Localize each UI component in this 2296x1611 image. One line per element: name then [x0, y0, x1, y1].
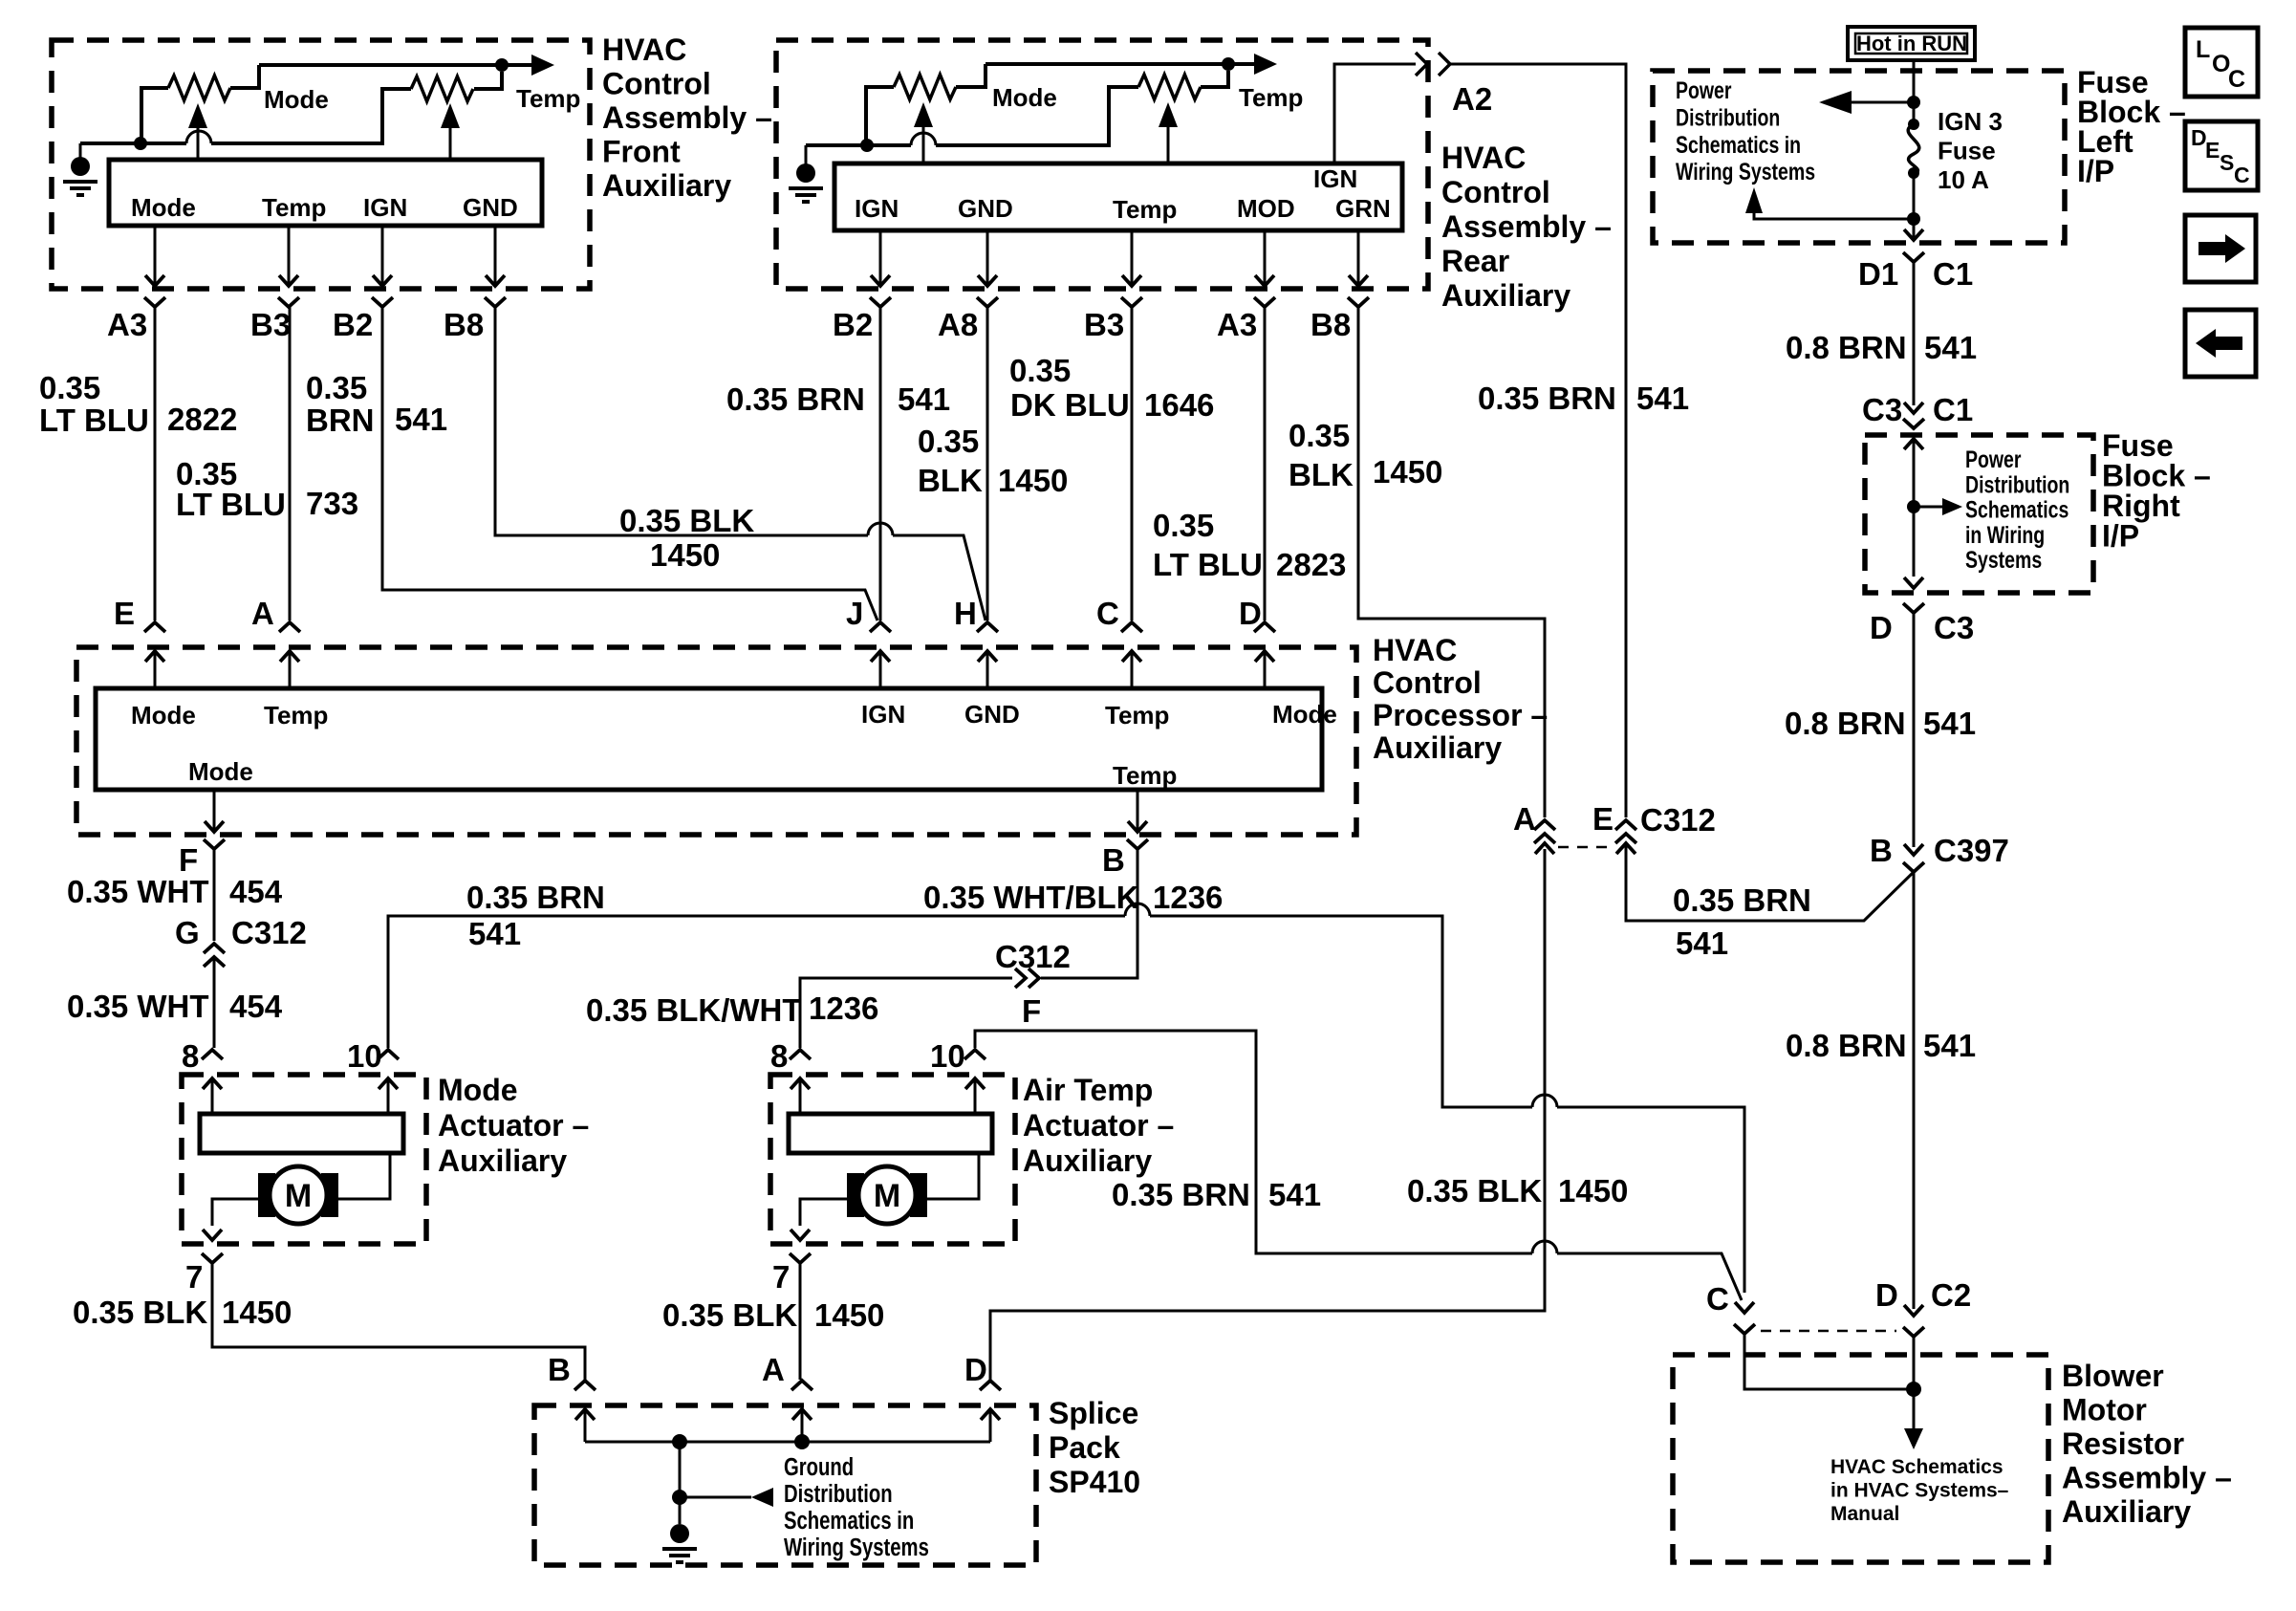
wire B3 -> C (0.35 DK BLU 1646) [1131, 307, 1134, 620]
svg-text:Auxiliary: Auxiliary [1373, 730, 1502, 765]
connector chevron pin x=400 (front) [372, 297, 393, 307]
svg-text:1450: 1450 [814, 1297, 884, 1333]
svg-text:0.35 BLK/WHT: 0.35 BLK/WHT [586, 992, 802, 1028]
svg-text:A: A [762, 1352, 785, 1387]
connector chevron pin x=162 (front) [144, 297, 165, 307]
svg-text:GND: GND [964, 700, 1020, 729]
wire A2 -> right rail (0.35 BRN 541) [1450, 64, 1626, 817]
wiper arrow Temp (front) [441, 103, 460, 128]
svg-text:M: M [285, 1178, 312, 1214]
arrow: power distribution reference (right) [1914, 506, 1942, 509]
svg-text:Control: Control [602, 67, 711, 101]
connector chevron pin x=921 (rear) [870, 297, 891, 307]
svg-text:Assembly –: Assembly – [1441, 209, 1612, 244]
ground (front assembly) [71, 157, 90, 176]
svg-text:Mode: Mode [264, 85, 329, 114]
svg-text:Resistor: Resistor [2062, 1426, 2184, 1461]
wire mode actuator pin 10 feed (0.35 BRN 541) [388, 916, 1125, 1048]
potentiometer Temp (rear) [1138, 75, 1201, 99]
ground (rear assembly) [796, 163, 815, 183]
svg-text:8: 8 [182, 1038, 199, 1074]
arrow: A2 exit through box edge [1416, 53, 1427, 76]
arrow: ground distribution reference [680, 1496, 751, 1499]
svg-text:733: 733 [306, 486, 358, 521]
svg-text:D: D [1875, 1277, 1898, 1313]
svg-text:0.35 BRN: 0.35 BRN [1112, 1177, 1250, 1212]
arrow: Temp output (rear) [1254, 54, 1277, 75]
svg-text:541: 541 [468, 916, 521, 951]
svg-text:H: H [954, 596, 977, 631]
node: top line junction (front) [495, 58, 509, 72]
svg-text:Schematics: Schematics [1965, 496, 2069, 523]
fuse block right entry arrow [1904, 439, 1923, 449]
pin stem x=1421 (rear) [1357, 230, 1360, 284]
node: rear bus junction [860, 139, 874, 152]
svg-text:0.35 BRN: 0.35 BRN [726, 381, 865, 417]
potentiometer Mode (rear) [866, 87, 894, 145]
Mode Actuator - Auxiliary (dashed box) [182, 1075, 426, 1244]
svg-text:C: C [1706, 1281, 1729, 1317]
svg-text:1450: 1450 [650, 537, 720, 573]
processor pin C entry [1121, 622, 1142, 632]
svg-text:D: D [1870, 610, 1893, 645]
HVAC Control Assembly - Front Auxiliary (dashed box) [52, 40, 590, 289]
connector rect (front assembly) [109, 160, 542, 226]
svg-text:10: 10 [347, 1038, 382, 1074]
connector chevron pin x=1323 (rear) [1254, 297, 1275, 307]
svg-text:Distribution: Distribution [1676, 104, 1780, 131]
Hot in RUN box [1848, 27, 1975, 60]
wire motor to rect (mode) [338, 1153, 390, 1199]
node: reference junction (right fuse block) [1907, 500, 1920, 513]
svg-text:GND: GND [463, 193, 518, 222]
wire C312 G -> mode actuator pin 8 (0.35 WHT 454) [213, 959, 216, 1048]
svg-text:Schematics in: Schematics in [1676, 131, 1801, 158]
pin stem x=518 (front) [494, 226, 497, 284]
svg-text:HVAC: HVAC [1373, 633, 1457, 667]
svg-text:541: 541 [1923, 1028, 1976, 1063]
splice bus [585, 1441, 990, 1444]
dashed connector body C312 [1558, 846, 1614, 849]
svg-text:0.35 BLK: 0.35 BLK [73, 1295, 207, 1330]
wire pin 7 -> splice A (0.35 BLK 1450) [799, 1263, 802, 1380]
svg-text:B: B [1870, 833, 1893, 868]
in-line connector C312 pin E [1615, 820, 1636, 830]
svg-text:Motor: Motor [2062, 1393, 2147, 1427]
pin stem x=162 (front) [154, 226, 157, 284]
svg-text:B: B [1102, 842, 1125, 878]
motor M (mode actuator) [258, 1173, 275, 1217]
arrow: HVAC schematics reference [1904, 1428, 1923, 1449]
pin stem x=1184 (rear) [1131, 230, 1134, 284]
connector chevron pin x=518 (front) [485, 297, 506, 307]
icon box LOC [2185, 28, 2258, 97]
processor pin E entry [144, 622, 165, 632]
node: fuse bottom junction [1907, 212, 1920, 226]
potentiometer Temp (front) [411, 76, 473, 101]
svg-text:8: 8 [770, 1038, 788, 1074]
svg-text:10 A: 10 A [1938, 165, 1989, 194]
svg-text:7: 7 [185, 1259, 203, 1295]
wire: front ground bus [80, 142, 135, 145]
icon box DESC [2185, 121, 2258, 190]
svg-text:I/P: I/P [2077, 154, 2114, 188]
svg-text:0.8 BRN: 0.8 BRN [1786, 1028, 1907, 1063]
svg-text:1236: 1236 [1153, 880, 1223, 915]
arrow: Temp output (front) [531, 54, 554, 76]
svg-text:IGN: IGN [363, 193, 407, 222]
svg-text:0.35: 0.35 [306, 370, 367, 405]
processor pin J entry [870, 622, 891, 632]
svg-text:Air Temp: Air Temp [1023, 1073, 1153, 1107]
processor pin F exit [213, 790, 216, 830]
wire fuse -> exit [1913, 173, 1916, 237]
wire: front top line to Temp arrow [259, 63, 531, 67]
Blower Motor Resistor Assembly - Auxiliary (dashed box) [1673, 1355, 2048, 1562]
svg-text:MOD: MOD [1237, 194, 1295, 223]
Fuse Block - Right I/P (dashed box) [1865, 435, 2093, 593]
svg-text:D: D [1239, 596, 1262, 631]
svg-text:Temp: Temp [1113, 761, 1177, 790]
svg-text:541: 541 [1636, 381, 1689, 416]
splice pack pin D entry [980, 1381, 1001, 1390]
svg-text:B: B [548, 1352, 571, 1387]
svg-text:Mode: Mode [1272, 700, 1337, 729]
svg-text:0.8 BRN: 0.8 BRN [1785, 706, 1906, 741]
svg-text:0.35 BLK: 0.35 BLK [662, 1297, 797, 1333]
svg-text:Temp: Temp [1113, 195, 1177, 224]
svg-text:C397: C397 [1934, 833, 2009, 868]
splice pack pin B entry [574, 1381, 596, 1390]
wire: rear ground bus [806, 143, 861, 147]
svg-text:C: C [2228, 66, 2245, 93]
wire C312 E -> B C397 (0.35 BRN 541) [1626, 845, 1914, 921]
svg-text:E: E [1592, 801, 1614, 837]
svg-text:541: 541 [1923, 706, 1976, 741]
svg-text:A: A [1513, 801, 1536, 837]
motor M (air temp actuator) [847, 1173, 864, 1217]
wire air temp pin 10 feed (0.35 BRN 541) [975, 1031, 1532, 1253]
svg-text:2823: 2823 [1276, 547, 1346, 582]
svg-text:Systems: Systems [1965, 547, 2042, 574]
Splice Pack SP410 (dashed box) [534, 1405, 1036, 1565]
svg-text:Mode: Mode [992, 83, 1057, 112]
svg-text:Assembly –: Assembly – [2062, 1461, 2232, 1495]
HVAC Control Processor - Auxiliary (dashed box) [76, 647, 1356, 835]
svg-text:Auxiliary: Auxiliary [438, 1143, 567, 1178]
processor pin B exit [1137, 790, 1139, 830]
svg-text:0.35: 0.35 [1153, 508, 1214, 543]
svg-text:1450: 1450 [1373, 454, 1442, 490]
mode actuator pin 8 entry [202, 1050, 223, 1059]
svg-text:A: A [251, 596, 274, 631]
svg-text:Assembly –: Assembly – [602, 100, 772, 135]
wire B2 -> J (0.35 BRN 541) [879, 307, 882, 620]
svg-text:IGN: IGN [861, 700, 905, 729]
svg-text:541: 541 [1268, 1177, 1321, 1212]
svg-text:0.35 BRN: 0.35 BRN [1478, 381, 1616, 416]
pin stem x=1033 (rear) [986, 230, 989, 284]
wire motor to rect (air temp) [927, 1153, 979, 1199]
svg-text:LT BLU: LT BLU [176, 487, 286, 522]
svg-text:541: 541 [1676, 925, 1728, 961]
in-line connector C312 pin G [204, 944, 225, 953]
svg-text:in HVAC Systems–: in HVAC Systems– [1830, 1480, 2009, 1502]
svg-text:C: C [2234, 163, 2250, 187]
svg-text:541: 541 [1924, 330, 1977, 365]
svg-text:0.35 BLK: 0.35 BLK [1407, 1173, 1542, 1208]
connector chevron A2 [1439, 53, 1450, 76]
connector C2 pin C [1735, 1302, 1754, 1313]
svg-text:B3: B3 [250, 307, 291, 342]
svg-text:C: C [1096, 596, 1119, 631]
svg-text:BRN: BRN [306, 403, 375, 438]
arrow: power distribution reference (left) [1849, 101, 1908, 104]
svg-text:A3: A3 [107, 307, 147, 342]
svg-text:0.35 BRN: 0.35 BRN [466, 880, 605, 915]
svg-text:Schematics in: Schematics in [784, 1507, 914, 1535]
svg-text:IGN: IGN [1313, 164, 1357, 193]
fuse IGN 3 10A [1908, 119, 1919, 130]
svg-text:SP410: SP410 [1049, 1465, 1140, 1499]
wiper arrow Mode (rear) [914, 102, 933, 127]
svg-text:2822: 2822 [167, 402, 237, 437]
pin stem x=302 (front) [288, 226, 291, 284]
svg-text:Rear: Rear [1441, 244, 1509, 278]
svg-text:C312: C312 [1640, 802, 1716, 838]
wire pin 7 -> splice B (0.35 BLK 1450) [212, 1263, 585, 1380]
svg-text:454: 454 [229, 989, 283, 1024]
svg-text:Auxiliary: Auxiliary [1441, 278, 1570, 313]
node: splice bus junctions [672, 1434, 687, 1449]
processor pin H entry [977, 622, 998, 632]
node: ground reference branch [672, 1490, 687, 1505]
svg-text:HVAC: HVAC [1441, 141, 1526, 175]
svg-text:Temp: Temp [516, 84, 580, 113]
Air Temp Actuator - Auxiliary (dashed box) [770, 1075, 1015, 1244]
svg-text:E: E [2205, 138, 2220, 163]
svg-text:Blower: Blower [2062, 1359, 2164, 1393]
wire A3 -> D (0.35 LT BLU 2823) [1264, 307, 1267, 620]
svg-text:B8: B8 [1310, 307, 1351, 342]
pin stem x=1323 (rear) [1264, 230, 1267, 284]
svg-text:7: 7 [772, 1259, 790, 1295]
icon box left arrow [2185, 310, 2256, 377]
svg-text:Distribution: Distribution [1965, 471, 2069, 498]
svg-text:Wiring Systems: Wiring Systems [1676, 159, 1815, 185]
svg-text:Control: Control [1441, 175, 1550, 209]
wire C312 A -> splice D (0.35 BLK 1450) [990, 849, 1545, 1380]
svg-text:0.35 BLK: 0.35 BLK [619, 503, 754, 538]
in-line connector C312 pin A [1534, 820, 1555, 830]
wire C2 D -> blower resistor [1913, 1337, 1916, 1431]
wire D1 C1 -> C3 C1 (0.8 BRN 541) [1913, 262, 1916, 405]
svg-text:Pack: Pack [1049, 1430, 1120, 1465]
svg-text:0.35 BRN: 0.35 BRN [1673, 882, 1811, 918]
wire Hot in RUN -> fuse [1913, 60, 1916, 121]
svg-text:L: L [2196, 36, 2210, 63]
svg-text:0.35 WHT/BLK: 0.35 WHT/BLK [923, 880, 1139, 915]
wire C312 F -> air temp actuator pin 8 (0.35 BLK/WHT 1236) [800, 978, 1012, 1048]
svg-text:Temp: Temp [1105, 701, 1169, 729]
svg-text:C1: C1 [1933, 392, 1973, 427]
svg-text:Hot in RUN: Hot in RUN [1856, 32, 1967, 55]
svg-text:Mode: Mode [438, 1073, 518, 1107]
svg-text:Auxiliary: Auxiliary [602, 168, 731, 203]
svg-text:C312: C312 [995, 939, 1071, 974]
svg-text:0.35: 0.35 [1289, 418, 1350, 453]
wire D C3 -> B C397 (0.8 BRN 541) [1913, 613, 1916, 847]
potentiometer Mode (front) [141, 88, 168, 143]
svg-text:0.8 BRN: 0.8 BRN [1786, 330, 1907, 365]
wire F -> C312 G (0.35 WHT 454) [213, 849, 216, 941]
wiper arrow Temp (rear) [1159, 102, 1178, 127]
node: rear top line junction [1222, 57, 1235, 71]
svg-text:E: E [114, 596, 135, 631]
svg-text:B2: B2 [833, 307, 873, 342]
svg-text:G: G [175, 915, 200, 950]
mode actuator pin 10 entry [378, 1050, 399, 1059]
svg-text:Mode: Mode [188, 757, 253, 786]
arrow: feed reference (up arrow inside fuse block) [1754, 212, 1908, 219]
processor pin A entry [279, 622, 300, 632]
wire through fuse block right [1913, 439, 1916, 577]
fuse block left exit arrow [1904, 229, 1923, 240]
svg-text:A2: A2 [1452, 81, 1492, 117]
svg-text:0.35: 0.35 [1009, 353, 1071, 388]
svg-text:M: M [874, 1178, 900, 1214]
svg-text:Wiring Systems: Wiring Systems [784, 1534, 929, 1561]
svg-text:Temp: Temp [262, 193, 326, 222]
connector rect (processor) [96, 688, 1322, 790]
wiper arrow Mode (front) [188, 103, 207, 128]
svg-text:B2: B2 [333, 307, 373, 342]
processor pin D entry [1254, 622, 1275, 632]
svg-text:Ground: Ground [784, 1453, 854, 1481]
Fuse Block - Left I/P (dashed box) [1653, 71, 2065, 243]
HVAC Control Assembly - Rear Auxiliary (dashed box) [776, 40, 1428, 289]
wire B C397 -> D C2 (0.8 BRN 541) [1913, 872, 1916, 1309]
svg-text:F: F [1022, 993, 1041, 1029]
svg-text:C2: C2 [1931, 1277, 1971, 1313]
svg-text:Auxiliary: Auxiliary [1023, 1143, 1152, 1178]
connector C3 C1 [1904, 403, 1923, 413]
fuse block right exit arrow [1904, 577, 1923, 588]
svg-text:454: 454 [229, 874, 283, 909]
actuator body rect (mode) [200, 1114, 403, 1153]
wire B3 -> A (0.35 LT BLU 733) [289, 307, 292, 620]
wire A8 -> H (0.35 BLK 1450) [986, 307, 989, 620]
svg-text:0.35: 0.35 [39, 370, 100, 405]
connector chevron pin x=1033 (rear) [977, 297, 998, 307]
svg-text:D: D [964, 1352, 987, 1387]
svg-text:BLK: BLK [1289, 457, 1354, 492]
svg-text:1450: 1450 [1558, 1173, 1628, 1208]
svg-text:Fuse: Fuse [1938, 137, 1996, 165]
svg-text:LT BLU: LT BLU [39, 403, 149, 438]
splice pack pin A entry [791, 1381, 812, 1390]
svg-text:C3: C3 [1934, 610, 1974, 645]
svg-text:A8: A8 [938, 307, 978, 342]
svg-text:J: J [846, 596, 863, 631]
node: ground bus junction [134, 137, 147, 150]
wire splice ground drop [679, 1442, 682, 1524]
svg-text:0.35 WHT: 0.35 WHT [67, 989, 209, 1024]
svg-text:HVAC Schematics: HVAC Schematics [1830, 1456, 2004, 1478]
connector C2 pin D [1904, 1305, 1923, 1316]
svg-text:D1: D1 [1858, 256, 1898, 292]
svg-text:IGN: IGN [855, 194, 899, 223]
ground (splice pack SP410) [670, 1524, 689, 1543]
connector chevron pin x=302 (front) [278, 297, 299, 307]
svg-text:B8: B8 [444, 307, 484, 342]
svg-text:Processor –: Processor – [1373, 698, 1548, 732]
svg-text:Power: Power [1676, 77, 1732, 104]
svg-text:0.35: 0.35 [918, 424, 979, 459]
svg-text:0.35 WHT: 0.35 WHT [67, 874, 209, 909]
svg-text:B3: B3 [1084, 307, 1124, 342]
svg-text:DK BLU: DK BLU [1010, 387, 1130, 423]
in-line connector C312 pin F [1029, 969, 1039, 988]
svg-text:1236: 1236 [809, 991, 878, 1026]
connector B C397 [1904, 844, 1923, 855]
svg-text:1450: 1450 [222, 1295, 292, 1330]
svg-text:Front: Front [602, 135, 681, 169]
svg-text:541: 541 [395, 402, 447, 437]
air temp actuator pin 8 entry [790, 1050, 811, 1059]
connector rect (rear assembly) [834, 163, 1402, 230]
connector D C3 [1903, 603, 1924, 613]
node: fuse top junction [1907, 96, 1920, 109]
svg-text:IGN 3: IGN 3 [1938, 107, 2003, 136]
air temp actuator pin 10 entry [964, 1050, 986, 1059]
svg-text:1646: 1646 [1144, 387, 1214, 423]
wire B2 -> J (front IGN) [382, 307, 877, 620]
svg-text:Manual: Manual [1830, 1503, 1899, 1525]
connector chevron pin x=1421 (rear) [1348, 297, 1369, 307]
icon box right arrow [2185, 215, 2256, 282]
air temp actuator pin 7 exit [791, 1230, 810, 1240]
svg-text:GRN: GRN [1335, 194, 1391, 223]
svg-text:Temp: Temp [264, 701, 328, 729]
svg-text:C312: C312 [231, 915, 307, 950]
svg-text:Temp: Temp [1239, 83, 1303, 112]
svg-text:Distribution: Distribution [784, 1480, 893, 1508]
svg-text:in Wiring: in Wiring [1965, 522, 2045, 549]
svg-text:BLK: BLK [918, 463, 983, 498]
wire B8 -> H (front GND 0.35 BLK 1450) [495, 307, 868, 535]
dashed connector body C2 [1761, 1330, 1896, 1333]
svg-text:S: S [2220, 150, 2234, 175]
connector chevron pin x=1184 (rear) [1121, 297, 1142, 307]
svg-text:Control: Control [1373, 665, 1482, 700]
svg-text:HVAC: HVAC [602, 33, 686, 67]
wire C2 C -> blower junction [1744, 1334, 1907, 1389]
actuator body rect (air temp) [789, 1114, 992, 1153]
svg-text:541: 541 [898, 381, 950, 417]
svg-text:LT BLU: LT BLU [1153, 547, 1263, 582]
mode actuator pin 7 exit [203, 1230, 222, 1240]
node: blower junction [1906, 1382, 1921, 1397]
svg-text:Mode: Mode [131, 701, 196, 729]
connector D1 C1 [1903, 252, 1924, 262]
pin stem x=921 (rear) [879, 230, 882, 284]
svg-text:A3: A3 [1217, 307, 1257, 342]
svg-text:Power: Power [1965, 446, 2022, 473]
svg-text:Actuator –: Actuator – [438, 1108, 589, 1143]
wire A3 -> E (0.35 LT BLU 2822) [154, 307, 157, 620]
pin stem x=400 (front) [381, 226, 384, 284]
